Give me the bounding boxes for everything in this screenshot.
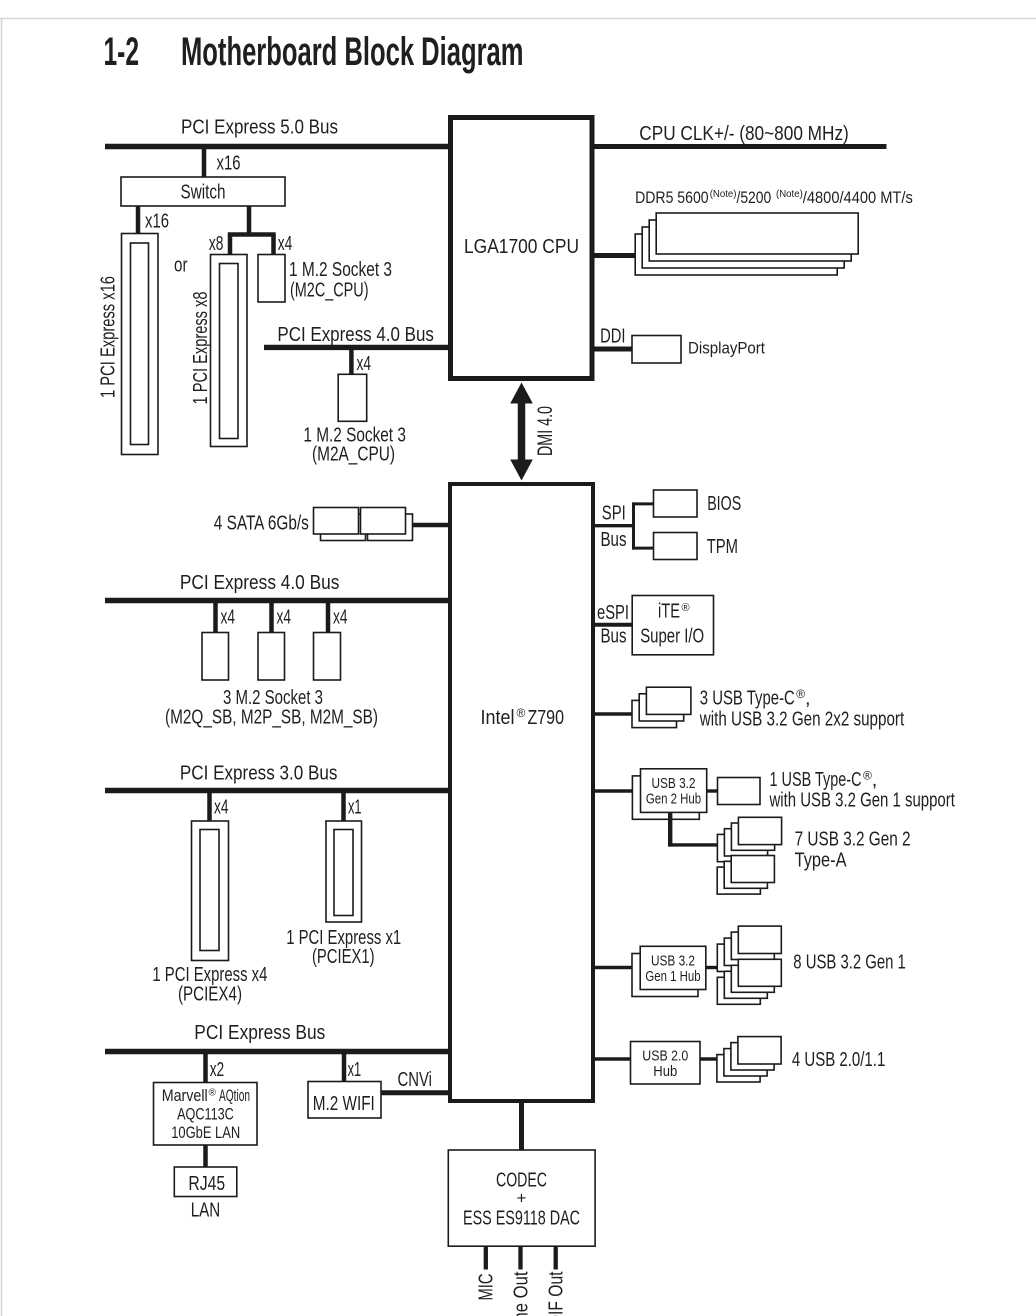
svg-text:TPM: TPM [707,536,738,558]
svg-text:USB 3.2: USB 3.2 [652,776,696,792]
svg-text:8 USB 3.2 Gen 1: 8 USB 3.2 Gen 1 [793,952,906,974]
svg-text:x4: x4 [221,607,236,629]
svg-text:Type-A: Type-A [795,850,848,872]
wire T split right leg [271,235,276,256]
8 USB 3.2 Gen 1 connector stacks [717,926,781,1004]
svg-text:,: , [805,688,811,710]
svg-text:Marvell: Marvell [162,1087,208,1105]
svg-text:(Note): (Note) [776,188,803,200]
Marvell AQtion LAN chip box [154,1083,258,1146]
svg-text:PCI Express 4.0 Bus: PCI Express 4.0 Bus [277,324,434,346]
svg-text:iTE: iTE [658,601,680,623]
USB 3.2 Gen 1 Hub box stack [632,946,706,996]
switch box [121,177,285,206]
wire to USB Type-C stack [595,712,635,715]
label CODEC + ESS ES9118 DAC [463,1170,580,1230]
wire SPI vertical [632,502,635,549]
svg-text:Motherboard Block Diagram: Motherboard Block Diagram [181,30,524,74]
svg-text:Gen 1 Hub: Gen 1 Hub [645,969,700,985]
svg-text:Bus: Bus [601,626,627,648]
svg-text:1 PCI Express x16: 1 PCI Express x16 [98,276,120,398]
label 1 USB Type-C with Gen 1 support [769,769,955,812]
svg-text:4 USB 2.0/1.1: 4 USB 2.0/1.1 [792,1049,885,1071]
wire bus to M2A socket [349,347,354,374]
wire S/PDIF Out [554,1246,558,1270]
svg-text:4 SATA 6Gb/s: 4 SATA 6Gb/s [214,513,309,535]
wire LAN chip to RJ45 [203,1145,208,1167]
M.2 socket M2Q_SB box [202,633,229,681]
svg-text:x16: x16 [217,153,241,175]
USB Type-C Gen1 port box [718,778,761,805]
wire PCI Express bus [105,1049,449,1055]
svg-text:S/PDIF Out: S/PDIF Out [546,1271,568,1316]
DDR5 DIMM slots stack [635,213,858,275]
CPU box LGA1700 [451,118,593,379]
svg-text:(M2Q_SB, M2P_SB, M2M_SB): (M2Q_SB, M2P_SB, M2M_SB) [165,707,378,729]
svg-text:MIC: MIC [476,1274,498,1301]
svg-text:x1: x1 [348,797,362,819]
wire hub to Type-C port [707,789,718,792]
svg-text:3 USB Type-C: 3 USB Type-C [700,688,795,710]
wire to Gen 2 hub [595,789,635,792]
label 7 USB 3.2 Gen 2 Type-A [795,829,911,872]
M.2 socket M2A_CPU box [338,374,367,421]
svg-text:PCI Express 3.0 Bus: PCI Express 3.0 Bus [180,763,338,785]
wire CPU to DDR5 [595,253,651,258]
svg-text:®: ® [863,769,872,783]
wire PCI Express 5.0 bus [105,144,449,150]
svg-text:(M2C_CPU): (M2C_CPU) [290,280,369,302]
label 3 USB Type-C with Gen 2x2 support [699,687,904,731]
wire hub down [668,812,672,846]
wire to PCIEX1 [341,791,346,822]
wire PCI Express 3.0 bus [105,788,449,794]
svg-text:1-2: 1-2 [104,30,140,74]
wire hub to 8-port stack [706,966,719,969]
svg-text:RJ45: RJ45 [188,1173,225,1195]
svg-text:(Note): (Note) [710,188,737,200]
svg-text:®: ® [209,1088,217,1099]
wire PCI Express 4.0 bus [105,598,449,604]
svg-text:LGA1700 CPU: LGA1700 CPU [464,236,579,258]
svg-text:AQtion: AQtion [219,1087,250,1105]
label USB 2.0 Hub [642,1048,688,1080]
svg-text:/4800/4400 MT/s: /4800/4400 MT/s [803,189,913,207]
svg-text:®: ® [796,687,805,701]
PCIEX1 slot [326,821,362,922]
wire to M2P [269,601,274,633]
wire bus to switch [202,147,207,178]
4 USB 2.0 connector stack [717,1037,781,1082]
svg-text:(PCIEX1): (PCIEX1) [312,946,375,968]
USB 3.2 Gen 2 Hub box stack [632,769,706,820]
wire to M.2 WIFI [342,1052,347,1083]
wire PCI Express 4.0 bus (CPU) [264,345,449,350]
svg-text:x4: x4 [214,797,229,819]
wire T split left leg [228,235,233,256]
wire to M2Q [213,601,218,633]
wire to PCIEX4 [207,791,212,822]
svg-text:DMI 4.0: DMI 4.0 [534,406,557,456]
CODEC + ESS ES9118 DAC box [448,1150,595,1246]
wire DDI [595,347,633,352]
svg-text:with USB 3.2 Gen 1 support: with USB 3.2 Gen 1 support [769,790,955,812]
svg-text:Switch: Switch [181,182,226,204]
svg-text:CPU CLK+/- (80~800 MHz): CPU CLK+/- (80~800 MHz) [639,123,849,145]
svg-text:+: + [517,1189,527,1208]
wire to LAN chip [203,1052,208,1083]
wire CNVi [381,1090,449,1095]
iTE Super I/O box [632,596,713,655]
label USB 3.2 Gen 1 Hub [645,954,700,986]
wire to TPM [632,547,654,550]
svg-text:Intel: Intel [481,707,515,729]
wire Line Out [518,1246,522,1270]
svg-text:,: , [872,769,878,791]
svg-text:LAN: LAN [191,1200,221,1222]
svg-text:DisplayPort: DisplayPort [688,338,765,357]
svg-text:Hub: Hub [653,1064,677,1080]
wire switch down to T split [247,206,252,237]
svg-text:Gen 2 Hub: Gen 2 Hub [646,792,701,808]
svg-text:PCI Express 4.0 Bus: PCI Express 4.0 Bus [180,572,340,594]
label iTE Super I/O [640,601,704,648]
svg-text:SPI: SPI [602,503,626,525]
svg-text:1 M.2 Socket 3: 1 M.2 Socket 3 [289,259,392,281]
svg-text:/5200: /5200 [737,189,772,207]
M.2 socket M2M_SB box [314,633,341,681]
wire chipset to codec [519,1101,524,1150]
wire T split bar [228,232,276,237]
svg-text:x4: x4 [277,607,292,629]
wire MIC [484,1246,488,1270]
M.2 socket M2C_CPU box [258,255,285,303]
TPM box [654,533,698,560]
svg-text:®: ® [517,706,526,720]
svg-text:10GbE LAN: 10GbE LAN [171,1124,240,1142]
svg-text:x4: x4 [278,233,293,255]
svg-text:M.2 WIFI: M.2 WIFI [313,1093,375,1115]
wire to M2M [326,601,331,633]
svg-text:x4: x4 [333,607,348,629]
wire SPI bus [595,524,636,527]
PCIEX4 slot [192,821,229,961]
svg-text:Bus: Bus [601,529,627,551]
svg-text:x8: x8 [209,233,224,255]
svg-text:or: or [174,254,188,276]
SATA connector stacks [314,508,413,541]
DMI 4.0 double arrow [510,383,533,481]
svg-text:Super I/O: Super I/O [640,626,704,648]
svg-text:Z790: Z790 [528,707,565,729]
wire to USB 2.0 hub [595,1057,631,1060]
svg-text:AQC113C: AQC113C [177,1105,234,1123]
PCI Express x16 slot [122,234,159,455]
svg-text:x4: x4 [357,353,372,375]
svg-text:BIOS: BIOS [707,493,741,515]
svg-text:x16: x16 [145,211,169,233]
BIOS box [654,490,698,517]
wire SATA to chipset [405,523,449,528]
wire switch to PCIe x16 slot [136,206,141,234]
svg-text:PCI Express Bus: PCI Express Bus [194,1022,325,1044]
svg-text:eSPI: eSPI [597,602,629,624]
svg-text:DDI: DDI [600,325,625,347]
svg-text:x1: x1 [348,1059,362,1081]
M.2 socket M2P_SB box [258,633,285,681]
svg-text:PCI Express 5.0 Bus: PCI Express 5.0 Bus [181,116,338,138]
svg-text:1 PCI Express x8: 1 PCI Express x8 [190,292,212,405]
svg-text:CNVi: CNVi [398,1069,433,1091]
svg-text:DDR5 5600: DDR5 5600 [635,189,709,207]
wire to BIOS [632,502,654,505]
7 USB 3.2 Gen 2 Type-A connector stacks [717,817,781,894]
svg-text:Line Out: Line Out [511,1271,533,1316]
M.2 WIFI box [308,1082,381,1119]
svg-text:x2: x2 [210,1059,225,1081]
svg-text:ESS ES9118 DAC: ESS ES9118 DAC [463,1208,580,1230]
label Intel Z790 [481,706,565,729]
chipset box Intel Z790 [450,484,593,1101]
wire CPU CLK [595,144,887,149]
svg-text:1 USB Type-C: 1 USB Type-C [770,769,862,791]
svg-text:USB 3.2: USB 3.2 [651,954,695,970]
wire hub to 4-port stack [700,1057,719,1060]
svg-text:USB 2.0: USB 2.0 [642,1048,688,1064]
wire to Gen 1 hub [595,966,635,969]
svg-text:7 USB 3.2 Gen 2: 7 USB 3.2 Gen 2 [795,829,911,851]
page top border [0,18,1036,20]
wire eSPI bus [595,623,634,627]
USB 2.0 Hub box [631,1042,701,1085]
svg-text:with USB 3.2 Gen 2x2 support: with USB 3.2 Gen 2x2 support [699,709,904,731]
label Marvell AQtion AQC113C 10GbE LAN [162,1087,250,1142]
RJ45 box [174,1167,237,1197]
DisplayPort box [632,336,681,364]
page left border [1,19,3,1316]
label DDR5 speeds [635,188,913,207]
svg-text:(M2A_CPU): (M2A_CPU) [312,444,395,466]
svg-text:®: ® [682,602,690,614]
wire to 7-port stack [668,843,722,846]
svg-text:(PCIEX4): (PCIEX4) [178,984,242,1006]
label USB 3.2 Gen 2 Hub [646,776,701,808]
PCI Express x8 slot [211,255,248,447]
3 USB Type-C connector stack [632,687,691,727]
